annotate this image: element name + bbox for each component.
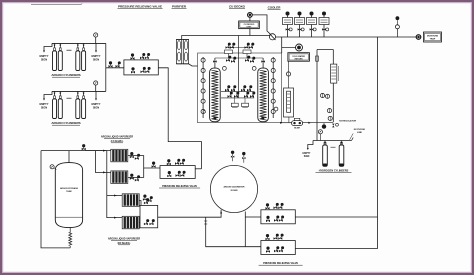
- riser joining banks: [105, 43, 107, 67]
- svg-text:ARGON STORAGE: ARGON STORAGE: [60, 187, 79, 190]
- box2 valves inside: [144, 219, 149, 225]
- regulator set 4: [322, 12, 326, 16]
- purifier enclosure: [198, 53, 282, 123]
- coil row1: [111, 149, 128, 162]
- loop B valves: [320, 93, 324, 97]
- dash between pairs bank2: [67, 97, 72, 99]
- loop A valve circle: [286, 72, 290, 76]
- PRV box1 valves above: [167, 159, 171, 165]
- cooler circle: [269, 34, 275, 40]
- top cluster right: [243, 50, 251, 54]
- loop A bottom stub: [288, 117, 290, 122]
- coil row3: [122, 194, 139, 207]
- svg-text:EMPTY: EMPTY: [40, 102, 49, 106]
- mid cluster valves row2: [228, 92, 233, 98]
- boxB outlet: [295, 248, 377, 250]
- fitting on loop B left vertical: [316, 56, 319, 61]
- main right riser: [377, 37, 379, 249]
- regulator set 1: [286, 12, 290, 16]
- tank gauge: [50, 165, 54, 169]
- purifier small tower 1: [176, 39, 181, 63]
- regulator set 3: [310, 12, 314, 16]
- valve ticks on drop pipe: [204, 220, 207, 222]
- svg-text:SIGN: SIGN: [41, 57, 47, 61]
- tank top line: [68, 151, 70, 163]
- PRV box1 valves inside: [167, 171, 171, 177]
- svg-text:RETURN: RETURN: [295, 58, 304, 60]
- svg-text:400 Nm3/hr.: 400 Nm3/hr.: [117, 242, 131, 245]
- gasometer bottom piping: [244, 212, 246, 247]
- loop B piping: [317, 49, 333, 51]
- bottom circles in enclosure: [203, 111, 205, 113]
- svg-text:EMPTY: EMPTY: [92, 54, 101, 58]
- leader line top-left: [31, 3, 83, 5]
- tower top valve right: [262, 58, 264, 68]
- moisture trap box: [424, 32, 442, 42]
- regulator valve: [332, 124, 334, 128]
- regulator set 2: [298, 12, 302, 16]
- molecular sieve tower right: [258, 68, 269, 122]
- svg-text:LINE: LINE: [357, 132, 363, 134]
- feed line to manifold box: [106, 67, 124, 69]
- H2 gauge: [318, 130, 322, 134]
- loop A bottom box: [294, 118, 299, 122]
- valves above box1: [131, 53, 135, 59]
- gasometer vent valve 1: [232, 157, 234, 161]
- PRV boxA: [261, 210, 295, 224]
- svg-text:COOLER: COOLER: [268, 6, 282, 10]
- bank1 right bracket + label: [95, 43, 97, 50]
- PRV boxB: [261, 241, 295, 255]
- molecular sieve tower left: [210, 68, 221, 122]
- svg-text:TRAP: TRAP: [430, 38, 436, 41]
- PRV box1: [160, 166, 195, 179]
- coil row4: [122, 216, 139, 229]
- standing valve on top line: [82, 144, 86, 150]
- box2 outlet to gasometer: [158, 210, 221, 217]
- bottom coil: [69, 233, 72, 246]
- bottom transfer line: [282, 122, 292, 124]
- group1 merge lines: [128, 156, 160, 168]
- dash between pairs bank1: [67, 49, 72, 51]
- box2 inlet lines: [139, 201, 141, 206]
- vertical feed group2: [107, 151, 122, 218]
- svg-text:25 NM3: 25 NM3: [230, 190, 238, 192]
- cold water label box: [288, 53, 310, 62]
- svg-text:N2 PURGE: N2 PURGE: [354, 129, 366, 131]
- svg-text:ARGON LIQUID VAPORISER: ARGON LIQUID VAPORISER: [108, 238, 141, 241]
- cluster connecting lines: [215, 57, 263, 59]
- right sampling chain: [272, 57, 274, 118]
- top header pipe: [276, 36, 419, 38]
- flow box2: [140, 205, 158, 227]
- small valve on bottom line: [322, 124, 326, 128]
- deoxo unit circle: [247, 12, 253, 18]
- row2 outlet valves: [130, 174, 134, 180]
- purifier small tower 2: [183, 39, 188, 63]
- dash between H2 cylinders: [331, 146, 336, 148]
- top cluster left: [225, 50, 233, 54]
- rotameter B: [331, 64, 337, 83]
- gauge bank1: [94, 33, 98, 37]
- row3 feed: [107, 195, 122, 197]
- row1 feed: [85, 150, 111, 152]
- mid cluster boxes: [231, 103, 238, 106]
- loop A piping: [284, 88, 294, 117]
- tower top valve left: [214, 58, 216, 68]
- left loop pipe: [41, 151, 70, 248]
- deoxo piping: [249, 18, 251, 21]
- svg-text:UNIT: UNIT: [247, 26, 252, 28]
- bank2 cylinders: [53, 92, 57, 119]
- svg-text:PRESSURE RELIEVING VALVE: PRESSURE RELIEVING VALVE: [118, 5, 162, 9]
- end unit circle: [416, 34, 422, 40]
- row3/4 outlet valves: [143, 195, 147, 201]
- rotameter A: [287, 91, 291, 112]
- svg-text:ARGON GASOMETER: ARGON GASOMETER: [224, 186, 245, 189]
- bank1 cylinders: [53, 44, 57, 71]
- mid cluster valves row1: [225, 85, 230, 91]
- svg-text:BLWR: BLWR: [294, 128, 300, 130]
- gauge bank2: [94, 81, 98, 85]
- svg-text:ARGON CYLINDERS: ARGON CYLINDERS: [51, 73, 80, 77]
- svg-text:SIGN: SIGN: [41, 105, 47, 109]
- svg-text:PRESSURE RELIEVING VALVE: PRESSURE RELIEVING VALVE: [162, 185, 197, 188]
- PRV box1 right line: [195, 168, 201, 170]
- svg-text:PURIFIER: PURIFIER: [172, 5, 187, 9]
- svg-text:EMPTY: EMPTY: [303, 153, 311, 155]
- svg-text:EMPTY: EMPTY: [40, 54, 49, 58]
- argon gasometer: [210, 165, 257, 212]
- svg-text:SIGN: SIGN: [93, 57, 99, 61]
- manifold box1: [124, 60, 158, 75]
- argon storage tank: [55, 163, 82, 228]
- valves inside box1: [131, 67, 135, 73]
- boxA outlet: [295, 216, 377, 218]
- svg-text:CU DEOXO: CU DEOXO: [229, 5, 246, 9]
- svg-text:EMPTY: EMPTY: [92, 102, 101, 106]
- bank2 left bracket + label: [44, 91, 52, 98]
- twin tower top/bottom headers: [176, 38, 188, 40]
- center pipe: [238, 36, 240, 48]
- row1 outlet valves: [130, 152, 134, 158]
- bank1 left bracket + label: [44, 43, 52, 50]
- feed valve 2: [116, 61, 121, 67]
- argon bank1 manifold: [52, 42, 106, 44]
- svg-text:ARGON LIQUID VAPORISER: ARGON LIQUID VAPORISER: [101, 136, 134, 139]
- svg-text:TANK: TANK: [66, 190, 72, 193]
- svg-text:MOISTURE: MOISTURE: [427, 35, 439, 37]
- svg-text:HYDROGEN CYLINDERS: HYDROGEN CYLINDERS: [319, 170, 349, 173]
- left sampling chain: [202, 57, 204, 118]
- enclosure feed drop: [281, 37, 283, 53]
- merge valve: [152, 162, 156, 168]
- svg-text:SIGN: SIGN: [304, 156, 310, 158]
- deoxo label box: [239, 21, 260, 29]
- H2 manifold: [313, 140, 352, 142]
- svg-text:H2 REGULATOR: H2 REGULATOR: [339, 119, 356, 122]
- svg-text:ARGON CYLINDERS: ARGON CYLINDERS: [51, 121, 80, 125]
- box2 valves above: [144, 198, 149, 204]
- svg-text:SIGN: SIGN: [93, 105, 99, 109]
- tank level line: [56, 216, 83, 218]
- coil row2: [111, 171, 128, 184]
- argon bank2 manifold: [52, 90, 106, 92]
- feed valve 1: [109, 61, 113, 67]
- tower bottom fittings: [213, 117, 216, 120]
- loop A feed from cold water box: [288, 61, 290, 88]
- gasometer vent valve 2: [243, 158, 245, 163]
- row2 feed branch: [95, 151, 110, 173]
- svg-text:PRESSURE RELIEVING VALVE: PRESSURE RELIEVING VALVE: [263, 262, 298, 265]
- H2 cylinders: [323, 143, 328, 167]
- blower: [292, 121, 303, 126]
- mid cluster lines: [221, 91, 254, 93]
- bank2 right bracket + label: [95, 91, 97, 98]
- svg-text:2.5 Nm3/hr.: 2.5 Nm3/hr.: [111, 140, 124, 143]
- cold water pump: [282, 47, 296, 49]
- box1 outlet: [158, 68, 201, 169]
- relief stack: [396, 29, 398, 37]
- H2 bracket + label: [308, 141, 313, 149]
